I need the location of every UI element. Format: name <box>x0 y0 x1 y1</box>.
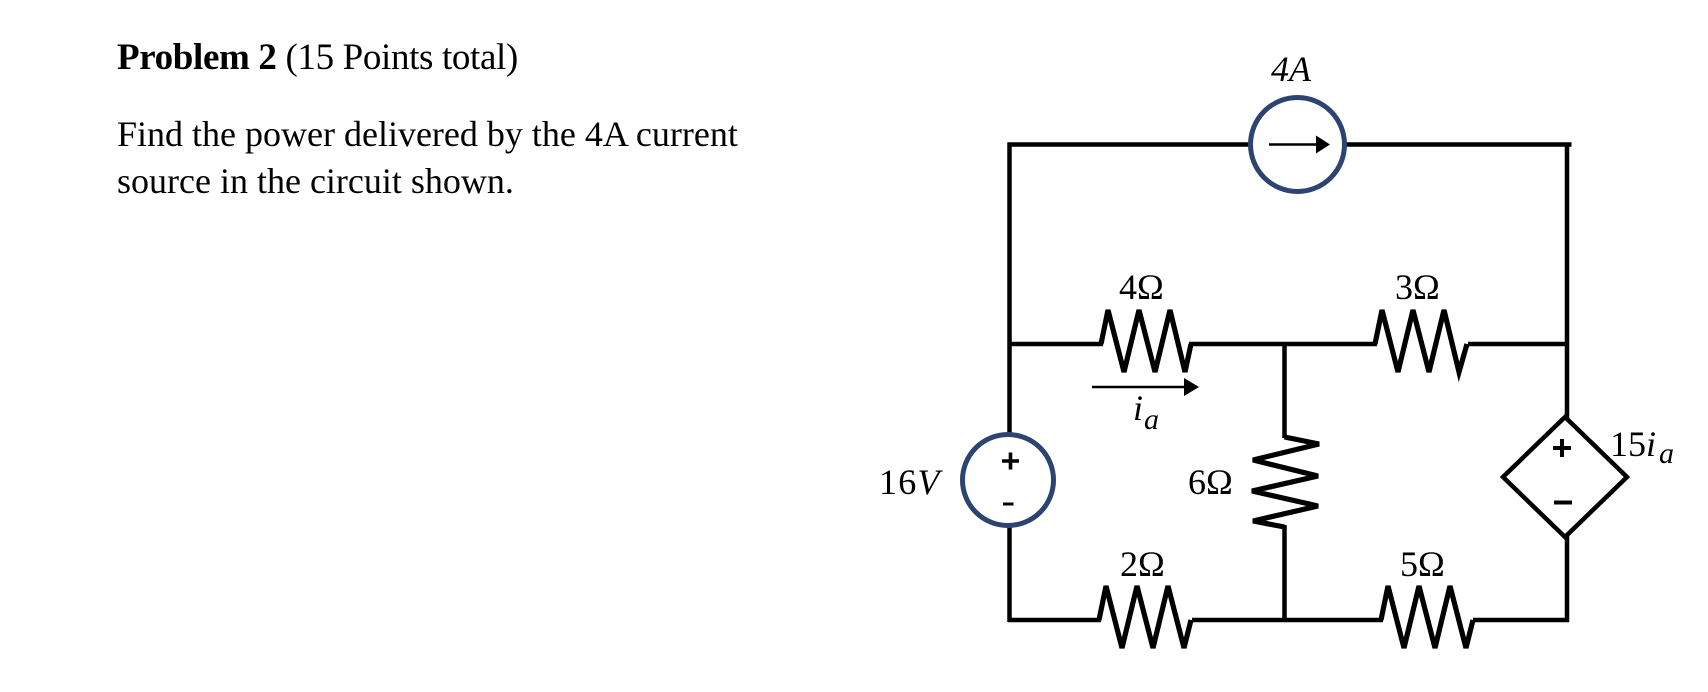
svg-text:Find the power delivered by th: Find the power delivered by the 4A curre… <box>117 114 738 154</box>
wire top right segment <box>1344 142 1572 147</box>
wire middle vertical upper <box>1282 344 1287 438</box>
svg-text:16V: 16V <box>879 462 943 502</box>
wire top left segment <box>1008 142 1255 147</box>
svg-text:6Ω: 6Ω <box>1188 462 1233 502</box>
resistor 3ohm <box>1375 310 1467 372</box>
resistor 4ohm <box>1101 310 1191 372</box>
wire middle vertical lower <box>1282 525 1287 620</box>
svg-text:3Ω: 3Ω <box>1395 267 1440 307</box>
wire bottom middle segment <box>1192 618 1383 623</box>
svg-text:2Ω: 2Ω <box>1120 544 1165 584</box>
wire bottom left segment <box>1008 618 1101 623</box>
wire left vertical upper <box>1007 143 1012 437</box>
voltage source 16V (circle with + -) <box>963 435 1054 526</box>
resistor 5ohm <box>1381 586 1473 648</box>
wire middle row right <box>1468 342 1568 347</box>
current arrow ia <box>1092 378 1199 396</box>
svg-text:Problem 2 (15 Points total): Problem 2 (15 Points total) <box>117 37 518 78</box>
svg-text:5Ω: 5Ω <box>1400 544 1445 584</box>
resistor 6ohm (vertical) <box>1252 437 1319 527</box>
resistor 2ohm <box>1099 586 1191 648</box>
wire right vertical lower <box>1565 535 1570 622</box>
current source 4A (circle with arrow) <box>1251 98 1345 192</box>
dependent source 15ia (diamond) <box>1503 417 1627 537</box>
wire middle row center <box>1189 342 1377 347</box>
svg-text:source in the circuit shown.: source in the circuit shown. <box>117 161 514 201</box>
svg-text:4Ω: 4Ω <box>1119 267 1164 307</box>
wire middle row left <box>1009 342 1103 347</box>
wire left vertical lower <box>1007 525 1012 622</box>
svg-text:4A: 4A <box>1271 49 1312 89</box>
wire right vertical upper <box>1565 143 1570 420</box>
wire bottom right segment <box>1473 618 1569 623</box>
